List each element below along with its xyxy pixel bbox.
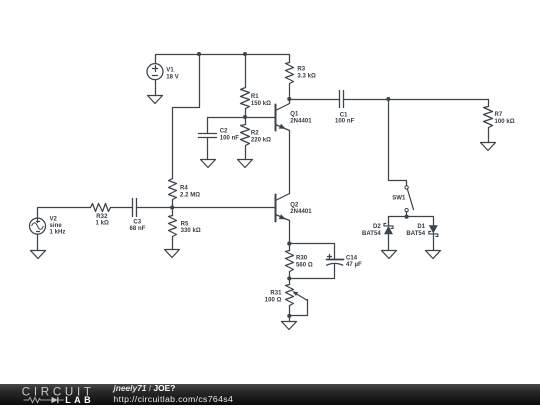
svg-text:100 kΩ: 100 kΩ: [495, 119, 515, 125]
svg-text:R3: R3: [297, 66, 305, 72]
svg-text:R7: R7: [495, 112, 503, 118]
svg-text:sine: sine: [50, 223, 63, 229]
svg-text:C2: C2: [220, 128, 228, 134]
svg-text:100 nF: 100 nF: [335, 118, 355, 124]
svg-text:jneely71 / JOE?: jneely71 / JOE?: [112, 383, 175, 393]
svg-text:R1: R1: [251, 94, 259, 100]
svg-text:http://circuitlab.com/cs764s4: http://circuitlab.com/cs764s4: [113, 394, 233, 404]
svg-text:R4: R4: [180, 185, 188, 191]
svg-text:LAB: LAB: [65, 395, 94, 405]
svg-text:D1: D1: [417, 224, 425, 230]
svg-text:V1: V1: [166, 68, 174, 74]
svg-text:18 V: 18 V: [166, 75, 179, 81]
svg-text:R32: R32: [96, 214, 108, 220]
svg-text:R31: R31: [270, 291, 282, 297]
svg-text:SW1: SW1: [392, 196, 406, 202]
svg-text:1 kΩ: 1 kΩ: [96, 221, 109, 227]
svg-text:R5: R5: [181, 221, 189, 227]
svg-text:330 kΩ: 330 kΩ: [181, 228, 201, 234]
svg-text:R2: R2: [251, 130, 259, 136]
svg-text:C3: C3: [133, 220, 141, 226]
svg-text:150 kΩ: 150 kΩ: [251, 101, 271, 107]
svg-text:C14: C14: [346, 256, 358, 262]
svg-text:Q2: Q2: [290, 203, 299, 209]
svg-text:220 kΩ: 220 kΩ: [251, 137, 271, 143]
svg-text:100 Ω: 100 Ω: [265, 298, 282, 304]
svg-text:BAT54: BAT54: [406, 231, 425, 237]
svg-text:47 µF: 47 µF: [346, 262, 362, 268]
svg-text:R30: R30: [296, 256, 308, 262]
svg-text:100 nF: 100 nF: [220, 135, 240, 141]
svg-text:2N4401: 2N4401: [290, 209, 312, 215]
svg-text:V2: V2: [50, 217, 58, 223]
svg-text:3.3 kΩ: 3.3 kΩ: [297, 73, 316, 79]
svg-text:BAT54: BAT54: [362, 231, 381, 237]
svg-text:560 Ω: 560 Ω: [296, 262, 313, 268]
svg-text:2.2 MΩ: 2.2 MΩ: [180, 192, 200, 198]
svg-text:1 kHz: 1 kHz: [50, 230, 66, 236]
svg-text:2N4401: 2N4401: [290, 119, 312, 125]
svg-text:Q1: Q1: [290, 112, 299, 118]
svg-text:D2: D2: [373, 224, 381, 230]
svg-text:68 nF: 68 nF: [130, 226, 146, 232]
